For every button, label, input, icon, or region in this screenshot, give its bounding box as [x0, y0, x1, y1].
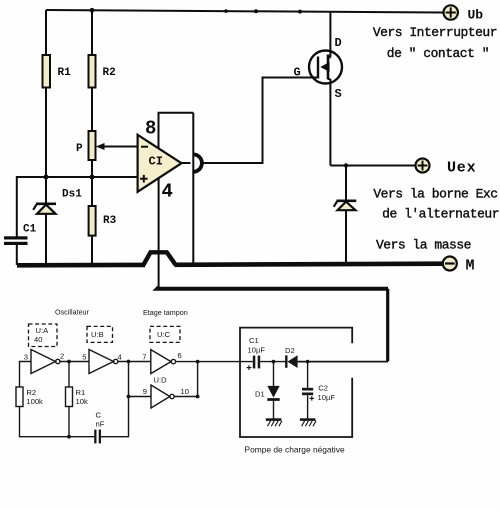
svg-text:5: 5 [82, 353, 86, 362]
svg-text:R2: R2 [26, 388, 36, 397]
wire C2 to ground [307, 395, 309, 419]
node junction gate D input [127, 395, 131, 399]
wire output to gate column [201, 78, 317, 164]
inverter U:C gate [151, 350, 176, 374]
IC box U:B [87, 326, 113, 342]
wire negative supply link [157, 287, 388, 288]
svg-text:D: D [335, 36, 342, 50]
wire D2 to node B [298, 361, 388, 363]
resistor R2 [89, 55, 96, 88]
inverter U:A gate [31, 350, 60, 374]
node junction R2-rail [90, 8, 95, 13]
svg-text:C1: C1 [249, 336, 259, 345]
inverter U:D gate [151, 385, 174, 408]
wire hop over vertical net [193, 154, 202, 171]
wire gate B out to gate C in [118, 361, 151, 363]
svg-text:C: C [96, 411, 102, 420]
svg-text:9: 9 [143, 387, 147, 396]
svg-text:R1: R1 [76, 388, 86, 397]
svg-text:10k: 10k [76, 397, 88, 406]
svg-text:Ub: Ub [468, 8, 484, 23]
diode D1 [255, 386, 280, 400]
wire vertical net to ground bus [192, 113, 194, 264]
node junction mid column / plus-input wire [90, 175, 95, 180]
node junction A [272, 360, 276, 364]
wire R1 top [68, 362, 70, 388]
node junction rail dot B [254, 9, 258, 13]
node junction rail dot A [224, 9, 228, 13]
terminal Ub [444, 5, 484, 22]
zener Ds1 [33, 189, 82, 214]
wire source to Uex [330, 165, 415, 167]
wire pin 8 to vertical net [159, 113, 194, 149]
resistor R3 [89, 206, 96, 236]
wire pin 4 down [158, 179, 160, 288]
svg-text:10µF: 10µF [248, 346, 266, 355]
wire gate D output [174, 396, 197, 398]
node junction B [306, 360, 310, 364]
svg-text:U:C: U:C [157, 330, 171, 339]
node junction C output [196, 360, 200, 364]
ground symbol D1 [266, 420, 282, 427]
svg-text:R1: R1 [58, 67, 72, 79]
svg-text:R3: R3 [103, 215, 117, 227]
node junction D output [196, 395, 200, 399]
wire R2 to P [91, 88, 93, 132]
svg-text:Vers la borne Exc: Vers la borne Exc [373, 187, 497, 202]
wire C1 to node A [260, 361, 286, 363]
ground bus M left segment [17, 263, 145, 268]
terminal M [443, 257, 475, 275]
wire P wiper to op-amp inverting input [103, 146, 138, 148]
svg-text:4: 4 [162, 181, 173, 203]
node junction R1 top [67, 360, 71, 364]
capacitor C1 [4, 224, 37, 246]
capacitor C1 10uF pump [247, 336, 266, 370]
wire R2 bottom [20, 407, 95, 437]
svg-text:6: 6 [178, 351, 182, 360]
wire top supply rail [46, 10, 444, 13]
resistor R2 100k [16, 387, 43, 407]
svg-text:C1: C1 [23, 224, 37, 236]
svg-text:R2: R2 [103, 67, 116, 79]
op-amp U1 CI [138, 135, 182, 192]
svg-text:100k: 100k [26, 397, 43, 406]
wire R1 column upper [45, 10, 47, 55]
wire bus hump over pin4 wire [144, 252, 176, 264]
svg-text:10µF: 10µF [318, 393, 336, 402]
wire op-amp output stub [182, 162, 191, 164]
wire Ds1 to ground bus [45, 214, 47, 265]
wire R3 to ground bus [91, 236, 93, 265]
ground symbol C2 [300, 420, 316, 427]
wire D1 to ground [273, 400, 275, 420]
IC box U:C [150, 326, 180, 342]
svg-text:Vers Interrupteur: Vers Interrupteur [373, 25, 497, 40]
node junction left column / plus-input wire [44, 175, 49, 180]
capacitor C nF [94, 411, 105, 444]
wire drain to rail [329, 11, 331, 58]
wire C1 to ground bus [16, 245, 18, 265]
svg-text:de l'alternateur: de l'alternateur [382, 207, 499, 222]
svg-text:Etage tampon: Etage tampon [143, 308, 188, 317]
svg-text:7: 7 [142, 353, 146, 362]
terminal Uex [416, 159, 477, 177]
svg-text:10: 10 [181, 387, 189, 396]
svg-text:Oscillateur: Oscillateur [55, 308, 90, 317]
IC box U:A [29, 324, 58, 347]
svg-text:C2: C2 [318, 384, 328, 393]
wire D3 to ground bus [345, 210, 347, 263]
diode D3 zener [334, 201, 357, 210]
wire gate A out to gate B in [60, 361, 89, 363]
wire gate D input [129, 396, 152, 398]
capacitor C2 10uF [302, 384, 335, 403]
wire R1 column middle [45, 88, 47, 204]
svg-text:Ds1: Ds1 [62, 189, 82, 201]
svg-text:D2: D2 [285, 346, 295, 355]
svg-text:U:D: U:D [154, 376, 168, 385]
svg-text:3: 3 [24, 353, 28, 362]
svg-text:8: 8 [145, 118, 156, 140]
svg-text:U:B: U:B [91, 330, 104, 339]
svg-text:4: 4 [118, 353, 122, 362]
svg-text:U:A: U:A [36, 326, 50, 335]
svg-text:Vers la masse: Vers la masse [376, 238, 471, 253]
wire D output up [197, 362, 199, 397]
wire to diode D3 [345, 166, 347, 201]
svg-text:Uex: Uex [447, 160, 476, 177]
svg-text:M: M [466, 258, 475, 275]
svg-text:D1: D1 [255, 390, 265, 399]
svg-text:40: 40 [34, 335, 42, 344]
resistor R1 [43, 55, 51, 88]
potentiometer P [89, 131, 96, 160]
node junction rail dot C [298, 10, 302, 14]
svg-text:de " contact ": de " contact " [387, 46, 489, 61]
wire buffer output to pump [176, 361, 253, 363]
transistor Q1 MOSFET [294, 36, 343, 101]
pump box border [240, 328, 352, 437]
node junction feedback top [127, 360, 131, 364]
wire R2 column upper [91, 10, 93, 55]
wire gate A input [20, 362, 32, 388]
wire non-inverting input horizontal [17, 177, 138, 237]
svg-text:CI: CI [149, 155, 163, 169]
node junction diode branch [344, 163, 348, 167]
wire P to R3 [91, 160, 93, 206]
inverter U:B gate [89, 350, 118, 374]
node junction R1 bottom [67, 435, 71, 439]
svg-text:nF: nF [96, 420, 105, 429]
wire node A to D1 [273, 362, 275, 386]
diode D2 [285, 346, 298, 368]
wire cap to feedback node [101, 362, 129, 437]
ground bus M right segment [175, 264, 443, 265]
svg-text:Pompe de charge négative: Pompe de charge négative [245, 445, 345, 455]
svg-text:G: G [294, 66, 301, 80]
wire node B to C2 [307, 362, 309, 388]
wire source down [329, 79, 331, 166]
resistor R1 10k [66, 387, 88, 407]
svg-text:2: 2 [60, 352, 64, 361]
svg-text:P: P [76, 143, 83, 155]
wire R1 bottom [68, 407, 70, 437]
svg-text:S: S [335, 87, 342, 101]
